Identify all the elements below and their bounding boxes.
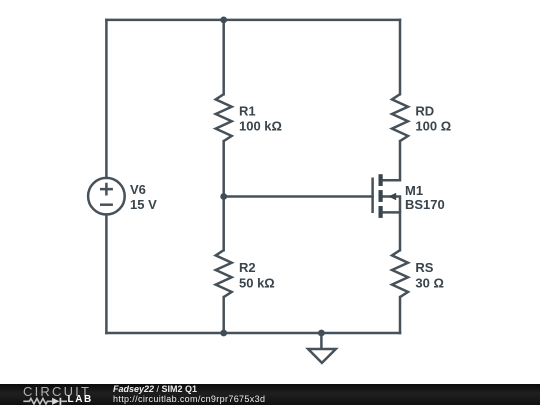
wire middle branch top (top rail to R1) <box>222 20 225 94</box>
node GND junction dot (bottom rail / ground) <box>318 330 325 337</box>
resistor R2 <box>216 250 232 297</box>
resistor R1 <box>216 94 232 141</box>
wire left rail lower (V6 to bottom rail) <box>105 215 108 334</box>
M1 body arrow <box>388 193 396 200</box>
logo LAB text <box>68 395 93 405</box>
M1 body wire <box>383 197 401 213</box>
svg-text:50 kΩ: 50 kΩ <box>239 276 275 291</box>
logo CIRCUIT text <box>23 385 91 398</box>
M1 channel bar drain <box>379 174 383 186</box>
wire middle branch bottom (R2 to bottom rail) <box>222 297 225 333</box>
voltage source V6 <box>88 178 125 215</box>
wire RS to bottom rail <box>399 297 402 333</box>
footer bar <box>0 384 540 405</box>
credit line 2 <box>113 395 265 404</box>
M1 channel bar source <box>379 206 383 218</box>
node A junction dot (top rail / middle branch) <box>220 17 227 24</box>
wire bottom rail <box>106 332 400 335</box>
svg-text:RS: RS <box>415 260 433 275</box>
svg-text:100 kΩ: 100 kΩ <box>239 119 282 134</box>
credit line 1 <box>113 385 197 394</box>
node C junction dot (bottom rail / middle branch) <box>220 330 227 337</box>
wire right branch top (top rail to RD) <box>399 20 402 94</box>
logo squiggle (wire resistor diode) <box>20 396 70 405</box>
wire top rail <box>106 19 400 22</box>
wire middle branch mid (R1 to R2) <box>222 141 225 250</box>
M1 channel bar body <box>379 190 383 202</box>
svg-text:BS170: BS170 <box>405 197 445 212</box>
transistor M1 (NMOS BS170) <box>373 174 400 218</box>
wire gate (node A to M1 gate) <box>224 195 373 198</box>
node B junction dot (R1/R2 divider to gate) <box>220 193 227 200</box>
M1 gate line <box>371 178 374 214</box>
resistor RS <box>392 250 408 297</box>
svg-text:R2: R2 <box>239 260 256 275</box>
svg-text:RD: RD <box>415 103 434 118</box>
ground <box>308 333 336 363</box>
svg-text:30 Ω: 30 Ω <box>415 276 444 291</box>
wire RD to M1 drain <box>383 141 401 180</box>
svg-text:V6: V6 <box>130 182 146 197</box>
svg-text:R1: R1 <box>239 103 256 118</box>
svg-text:100 Ω: 100 Ω <box>415 119 451 134</box>
resistor RD <box>392 94 408 141</box>
svg-text:M1: M1 <box>405 183 423 198</box>
wire M1 source to RS <box>383 212 401 250</box>
wire left rail upper (top rail to V6) <box>105 20 108 178</box>
svg-text:15 V: 15 V <box>130 197 157 212</box>
